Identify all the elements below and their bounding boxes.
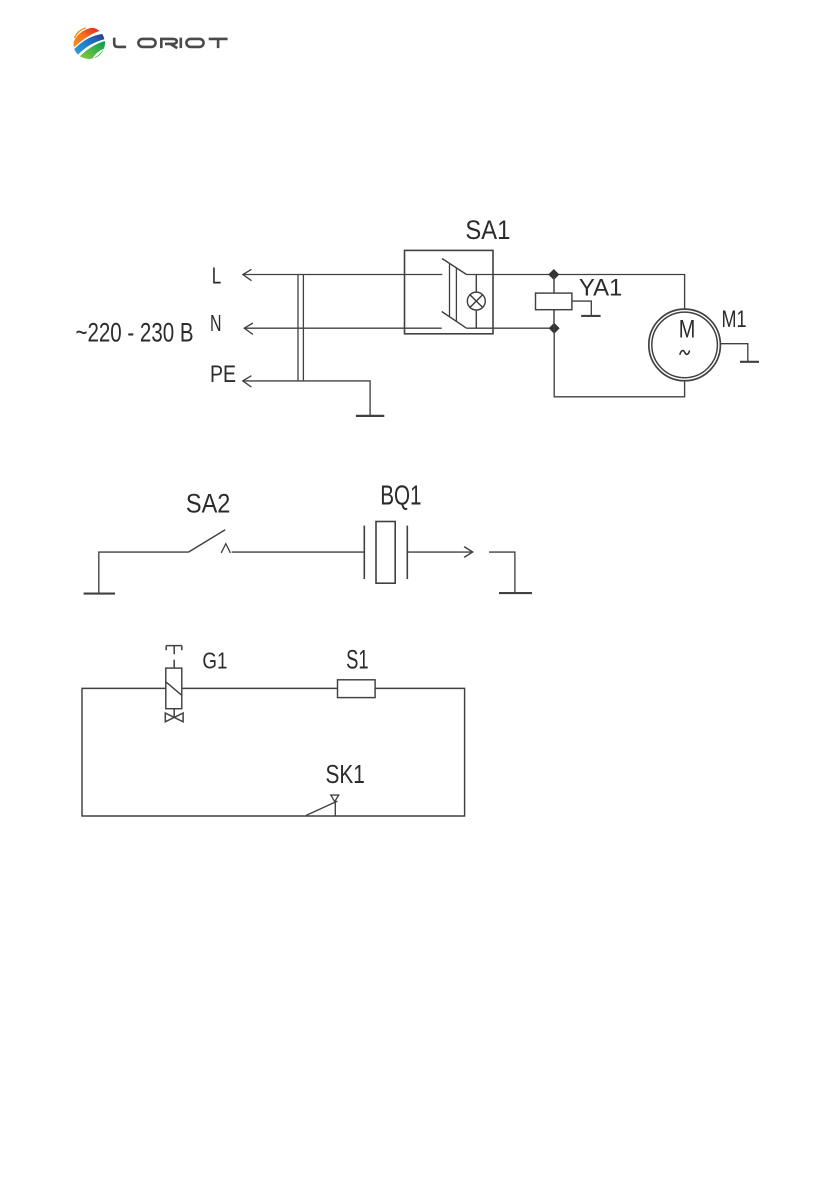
svg-text:G1: G1 xyxy=(202,647,227,673)
valve G1 bowtie xyxy=(165,709,183,722)
wire N xyxy=(244,327,441,329)
svg-text:PE: PE xyxy=(210,361,236,388)
wire L out to motor xyxy=(467,275,685,310)
switch SA1 pole 1 lever xyxy=(442,259,467,275)
label M1 xyxy=(722,306,747,333)
arrow PE xyxy=(243,376,252,387)
terminal N label xyxy=(210,310,222,336)
buzzer BQ1 label xyxy=(380,479,421,510)
resistor S1 xyxy=(338,680,376,698)
switch SA1 label xyxy=(465,215,510,245)
arrow L xyxy=(243,269,252,280)
igniter G1 body xyxy=(166,668,182,709)
resistor S1 label xyxy=(346,645,369,675)
svg-text:L: L xyxy=(212,263,222,289)
arrow N xyxy=(244,323,253,334)
ground YA1 xyxy=(572,301,601,316)
thermal switch SK1 xyxy=(306,795,339,816)
lamp in SA1 xyxy=(467,275,485,329)
junction node top xyxy=(548,269,559,280)
motor tilde xyxy=(680,350,690,354)
terminal L label xyxy=(212,263,222,289)
logo LORIOT wordmark xyxy=(114,38,227,49)
terminal right of BQ1 xyxy=(489,552,532,593)
switch SA1 pole 2 lever xyxy=(442,312,467,329)
svg-text:M1: M1 xyxy=(722,306,747,333)
svg-text:~220 - 230 B: ~220 - 230 B xyxy=(76,318,194,348)
svg-text:SA1: SA1 xyxy=(465,215,510,245)
wire L xyxy=(243,274,442,276)
wire N out to junction xyxy=(467,327,555,329)
igniter G1 electrode xyxy=(166,646,182,669)
svg-text:SA2: SA2 xyxy=(186,488,231,518)
wire PE xyxy=(243,381,370,415)
thermal switch SK1 label xyxy=(326,759,365,789)
svg-text:N: N xyxy=(210,310,222,336)
motor letter M xyxy=(679,316,696,344)
label YA1 xyxy=(579,275,623,302)
ground left of SA2 xyxy=(84,552,189,594)
switch SA2 label xyxy=(186,488,231,518)
switch SA1 link xyxy=(450,264,457,321)
switch SA2 lever xyxy=(189,530,226,552)
junction node bottom xyxy=(549,323,560,334)
svg-text:BQ1: BQ1 xyxy=(380,479,421,510)
wire BQ1 out xyxy=(407,551,471,553)
switch SA1 box xyxy=(405,250,494,333)
arrow out xyxy=(464,547,473,558)
wire SA2 to BQ1 xyxy=(232,551,365,553)
buzzer BQ1 xyxy=(364,522,407,584)
terminal PE label xyxy=(210,361,236,388)
igniter G1 label xyxy=(202,647,227,673)
switch SA2 contact caret xyxy=(221,544,230,553)
svg-text:M: M xyxy=(679,316,696,344)
solenoid YA1 xyxy=(536,275,572,329)
logo LORIOT icon xyxy=(73,27,106,60)
wire loop circuit 3 xyxy=(82,688,465,816)
motor M1 xyxy=(649,309,721,381)
ground M1 xyxy=(720,344,759,362)
wire bottom to motor xyxy=(554,328,684,397)
ground PE xyxy=(356,415,384,417)
label ~220-230 V xyxy=(76,318,194,348)
svg-text:YA1: YA1 xyxy=(579,275,623,302)
cable marker xyxy=(298,275,303,381)
svg-text:SK1: SK1 xyxy=(326,759,365,789)
svg-text:S1: S1 xyxy=(346,645,369,675)
